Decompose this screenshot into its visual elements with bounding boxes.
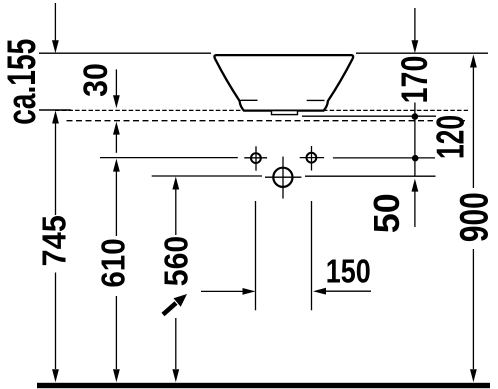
svg-text:ca.155: ca.155	[0, 39, 44, 125]
svg-text:150: 150	[326, 253, 371, 290]
svg-text:170: 170	[394, 56, 435, 104]
svg-text:560: 560	[157, 236, 195, 286]
svg-text:610: 610	[95, 238, 132, 287]
svg-text:120: 120	[429, 115, 472, 159]
svg-text:900: 900	[452, 192, 496, 242]
svg-text:745: 745	[35, 215, 73, 266]
svg-text:30: 30	[76, 63, 114, 97]
svg-text:50: 50	[366, 193, 407, 233]
